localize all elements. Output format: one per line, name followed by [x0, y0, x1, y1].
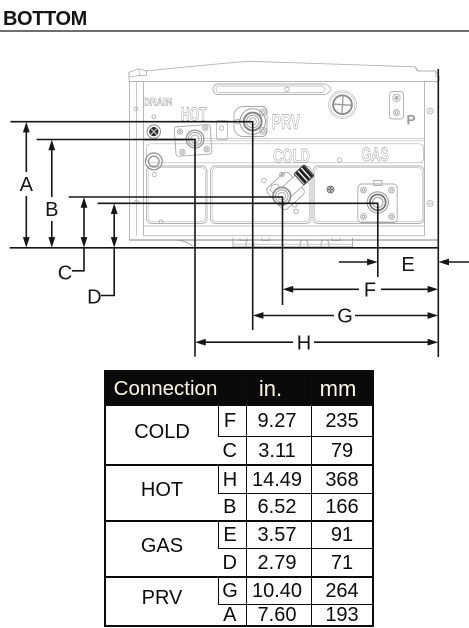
svg-text:E: E: [401, 254, 414, 276]
svg-text:A: A: [20, 174, 34, 196]
svg-text:GAS: GAS: [362, 144, 389, 165]
svg-text:P: P: [406, 113, 415, 128]
svg-text:PRV: PRV: [272, 110, 300, 134]
svg-text:D: D: [87, 287, 101, 309]
svg-text:H: H: [297, 333, 311, 355]
svg-text:DRAIN: DRAIN: [143, 97, 172, 109]
svg-text:F: F: [364, 280, 376, 302]
svg-text:COLD: COLD: [273, 146, 310, 167]
svg-text:B: B: [45, 199, 58, 221]
svg-text:C: C: [58, 263, 72, 285]
svg-text:G: G: [337, 306, 353, 328]
